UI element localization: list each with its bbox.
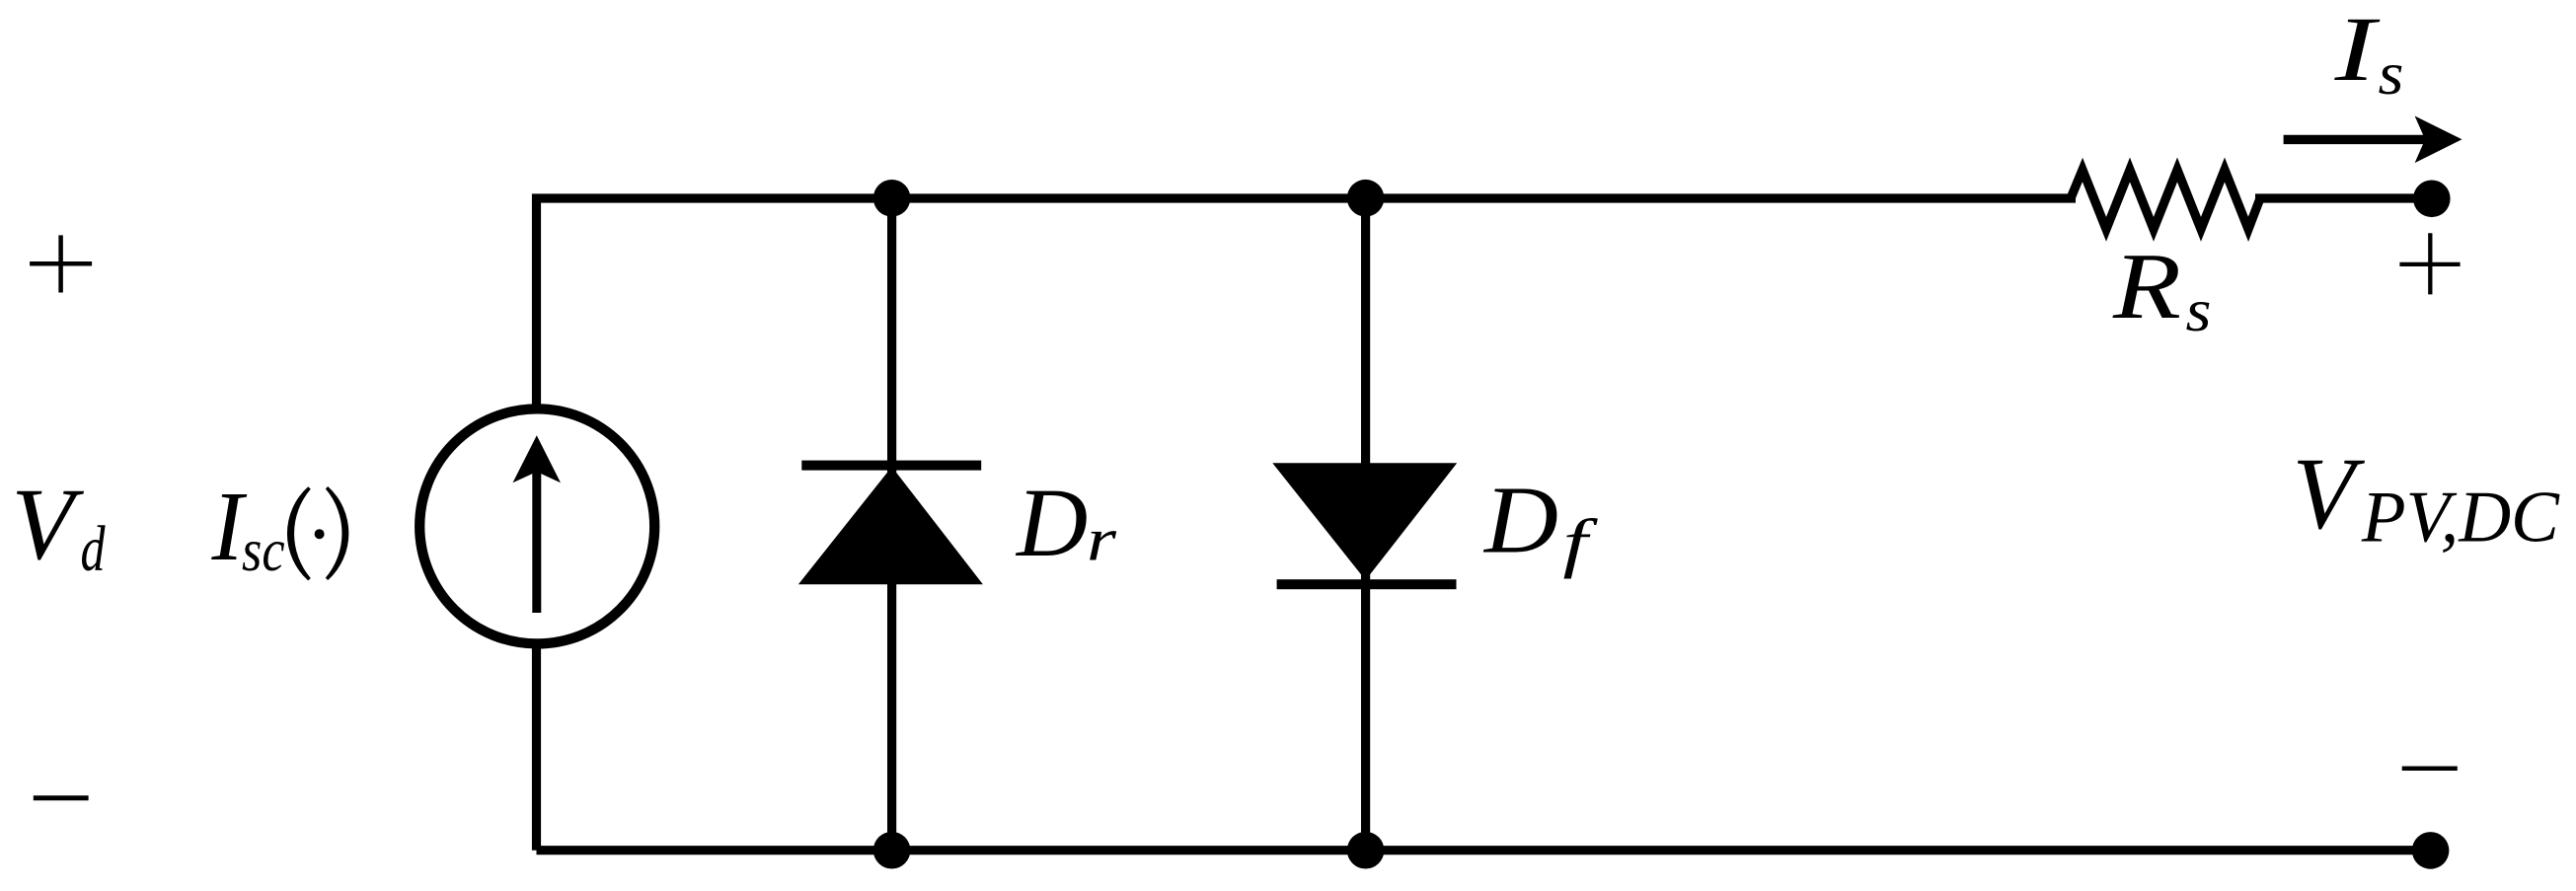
wire top right lead bbox=[2255, 193, 2432, 202]
label Isc cdot bbox=[315, 529, 325, 539]
label Isc paren right bbox=[326, 486, 349, 580]
svg-text:s: s bbox=[2379, 41, 2404, 108]
node bottom Df bbox=[1347, 832, 1385, 869]
node top right output bbox=[2413, 181, 2451, 218]
svg-text:sc: sc bbox=[242, 518, 285, 584]
node top Dr bbox=[873, 180, 911, 217]
svg-text:D: D bbox=[1482, 468, 1558, 573]
label minus left bbox=[34, 795, 89, 800]
current source arrowhead bbox=[513, 435, 562, 483]
svg-text:f: f bbox=[1563, 507, 1599, 580]
label plus right bbox=[2399, 233, 2460, 294]
svg-text:d: d bbox=[81, 513, 107, 585]
svg-text:s: s bbox=[2186, 278, 2212, 344]
label plus left bbox=[30, 235, 92, 292]
label Isc paren left bbox=[287, 486, 311, 580]
svg-text:r: r bbox=[1087, 507, 1117, 574]
wire bottom rail bbox=[537, 846, 2431, 854]
svg-text:V: V bbox=[12, 468, 85, 581]
node bottom right output bbox=[2412, 832, 2450, 869]
svg-text:PV,DC: PV,DC bbox=[2361, 477, 2561, 557]
resistor Rs zigzag bbox=[2071, 170, 2260, 229]
arrow Is shaft bbox=[2284, 135, 2424, 144]
current source arrow shaft bbox=[532, 452, 541, 613]
node top Df bbox=[1347, 180, 1385, 217]
wire diode Df branch bbox=[1361, 198, 1370, 851]
diode Df triangle bbox=[1272, 463, 1457, 580]
svg-text:V: V bbox=[2293, 437, 2366, 551]
arrow Is arrowhead bbox=[2415, 116, 2462, 164]
label minus right bbox=[2402, 767, 2458, 772]
diode Dr cathode bar bbox=[801, 461, 981, 471]
current source Isc circle bbox=[419, 408, 654, 643]
svg-text:D: D bbox=[1015, 468, 1088, 577]
diode Df cathode bar bbox=[1277, 579, 1457, 589]
node bottom Dr bbox=[873, 832, 911, 869]
diode Dr triangle bbox=[798, 467, 983, 584]
svg-text:R: R bbox=[2112, 234, 2181, 338]
wire diode Dr branch bbox=[887, 198, 896, 851]
wire left branch and top rail bbox=[537, 198, 2077, 851]
svg-text:I: I bbox=[2333, 0, 2381, 101]
